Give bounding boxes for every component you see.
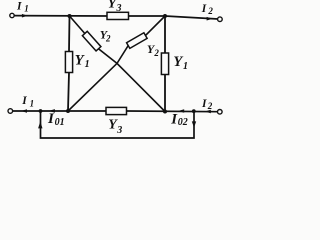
current arrow I02 (downward on right return) — [192, 121, 196, 127]
terminal 1 (top-left) — [10, 13, 14, 17]
svg-text:1: 1 — [24, 4, 29, 14]
svg-text:I: I — [16, 0, 22, 12]
current arrow I2 (top-right, rightward) — [207, 17, 213, 21]
svg-text:1: 1 — [85, 59, 90, 70]
svg-text:Y: Y — [173, 54, 183, 70]
svg-text:2: 2 — [207, 6, 213, 16]
terminal 2' (bottom-right) — [218, 110, 223, 115]
admittance Y1 (left) — [65, 52, 72, 73]
wire left vertical — [68, 16, 70, 111]
svg-text:2: 2 — [153, 48, 159, 58]
terminal 2 (top-right) — [218, 17, 223, 22]
wire lower return rail — [41, 111, 195, 138]
node junction bottom-left — [66, 109, 70, 113]
admittance Y1 (right) — [161, 53, 168, 75]
svg-text:01: 01 — [55, 117, 65, 128]
wire right vertical — [164, 16, 166, 112]
wire diagonal TR-BL — [68, 16, 165, 111]
node junction top-right — [163, 14, 167, 18]
terminal 1' (bottom-left) — [8, 109, 13, 114]
wire bottom rail left — [13, 110, 107, 112]
svg-text:2: 2 — [105, 34, 111, 44]
wire top rail right — [165, 16, 218, 19]
current arrow I1 (bottom-left, leftward) — [21, 109, 27, 113]
wire top rail middle — [128, 15, 165, 17]
node tap left (I01 branch) — [39, 109, 43, 113]
current arrow I01 feed (leftward on bottom rail) — [49, 109, 55, 113]
admittance Y3 (bottom) — [106, 107, 127, 114]
current arrow I02 feed (leftward on bottom rail) — [178, 109, 184, 113]
admittance Y2 (left diagonal) — [82, 31, 101, 51]
wire diagonal TL-BR — [70, 16, 166, 112]
current arrow I1 (top-left, rightward) — [22, 14, 28, 18]
svg-text:3: 3 — [116, 125, 122, 136]
admittance Y2 (right diagonal) — [127, 33, 148, 49]
svg-text:3: 3 — [116, 3, 122, 14]
wire top rail left — [14, 15, 107, 17]
svg-text:1: 1 — [30, 98, 34, 108]
admittance Y3 (top) — [107, 12, 129, 19]
svg-text:I: I — [21, 95, 27, 107]
node junction bottom-right — [163, 110, 167, 114]
svg-text:Y: Y — [75, 53, 85, 69]
svg-text:I: I — [201, 3, 207, 15]
current arrow I01 (upward on left return) — [38, 121, 42, 128]
svg-text:I: I — [201, 98, 207, 110]
svg-text:02: 02 — [178, 117, 188, 128]
current arrow I2 (bottom-right, leftward) — [205, 110, 211, 114]
svg-text:2: 2 — [207, 101, 213, 111]
node tap right (I02 branch) — [192, 109, 196, 113]
wire bottom rail right — [127, 110, 218, 113]
svg-text:1: 1 — [183, 61, 188, 72]
node junction top-left — [68, 14, 72, 18]
